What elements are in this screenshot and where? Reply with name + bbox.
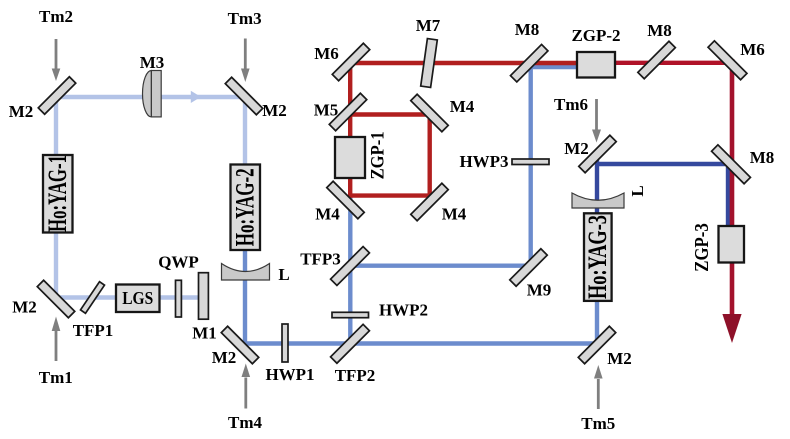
mirror M4 (bottom-right of ring)	[411, 183, 448, 220]
wire medium blue beam V6 (Ho:YAG-3 down to M2/Tm5)	[595, 298, 599, 346]
wire pale pump beam V2 (M2TR down into Ho:YAG-2)	[243, 97, 247, 230]
svg-text:M5: M5	[314, 101, 339, 120]
polarizer TFP2	[331, 324, 370, 363]
mirror M8 (top, right of ZGP-2)	[638, 41, 675, 78]
svg-text:M7: M7	[416, 16, 441, 35]
Tm2 pump arrow	[52, 39, 61, 81]
mirror M5	[329, 93, 366, 130]
mirror M4 (top-right of ring)	[411, 94, 448, 131]
svg-text:M2: M2	[212, 348, 237, 367]
waveplate QWP	[176, 280, 182, 317]
Tm5 pump arrow	[594, 365, 603, 409]
svg-text:M1: M1	[192, 324, 217, 343]
mirror M4 (bottom-left of ring)	[327, 181, 364, 218]
wire crimson beam RH1b (ZGP-2 output to M6 top-right)	[590, 61, 732, 65]
mirror M8 (right side)	[712, 145, 751, 184]
Tm4 pump arrow	[242, 364, 251, 409]
svg-text:HWP3: HWP3	[459, 152, 508, 171]
polarizer TFP1	[81, 282, 105, 314]
svg-text:LGS: LGS	[122, 288, 153, 308]
Tm1 pump arrow	[52, 317, 61, 362]
svg-text:M8: M8	[647, 21, 672, 40]
waveplate HWP2	[332, 312, 369, 317]
output arrowhead below ZGP-3	[722, 314, 741, 343]
svg-text:M2: M2	[9, 102, 34, 121]
svg-text:Ho:YAG-2: Ho:YAG-2	[231, 168, 260, 246]
svg-text:L: L	[628, 185, 647, 196]
Tm3 pump arrow	[241, 39, 250, 83]
wire medium blue beam H5 (M8 right into ZGP-2)	[531, 65, 579, 69]
svg-text:M4: M4	[315, 205, 340, 224]
wire medium blue beam H3 (M2/Tm4 to M2/Tm5)	[243, 341, 599, 345]
wire red beam RH1 (M6TL right through M7, M8, ZGP-2, M8 to M6TR)	[348, 61, 590, 65]
lens M3 (plano-convex)	[143, 71, 152, 117]
mirror M6 (top-left)	[332, 43, 369, 80]
svg-text:Ho:YAG-3: Ho:YAG-3	[583, 215, 612, 299]
svg-text:M8: M8	[750, 148, 775, 167]
crystal box Ho:YAG-3	[584, 213, 612, 301]
svg-text:M9: M9	[527, 281, 552, 300]
wire dark blue beam V7 (M2/Tm6 down through lens L into Ho:YAG-3)	[595, 152, 599, 298]
beam direction arrowhead on H1	[191, 91, 201, 103]
mirror M2 (below Tm6)	[579, 135, 616, 172]
svg-text:M3: M3	[140, 53, 165, 72]
wire red beam RH3 (M4BR left to M4BL)	[348, 193, 432, 197]
svg-text:ZGP-3: ZGP-3	[692, 223, 713, 272]
wire dark blue beam H6 (M8 right to M2/Tm6)	[597, 162, 730, 166]
Tm6 pump arrow	[592, 99, 601, 143]
wire red beam RV1 (M6TL down through M5 and ZGP-1 to M4BL)	[348, 61, 352, 198]
mirror M2 (above Tm5)	[578, 326, 615, 363]
crystal box ZGP-1	[335, 137, 365, 178]
svg-text:ZGP-2: ZGP-2	[571, 26, 620, 45]
svg-text:M2: M2	[262, 101, 287, 120]
polarizer TFP3	[331, 247, 370, 286]
svg-text:TFP1: TFP1	[73, 321, 114, 340]
mirror M2 (above Tm4)	[221, 326, 258, 363]
wire red beam RV2 (M4TR down to M4BR)	[428, 113, 432, 198]
svg-text:M4: M4	[450, 97, 475, 116]
mirror M6 (top-right corner)	[708, 41, 747, 80]
svg-text:M2: M2	[564, 139, 589, 158]
wire medium blue beam H4 (TFP3 right to M9)	[348, 264, 530, 268]
crystal box LGS	[116, 285, 160, 313]
svg-text:TFP3: TFP3	[300, 250, 341, 269]
svg-text:Tm6: Tm6	[554, 95, 588, 114]
wire pale pump beam H2 (M2BL right to M1)	[54, 295, 203, 299]
svg-text:ZGP-1: ZGP-1	[367, 131, 388, 179]
svg-text:M6: M6	[314, 44, 339, 63]
svg-text:M6: M6	[740, 40, 765, 59]
mirror M2 (top-right)	[225, 77, 262, 114]
mirror M2 (top-left)	[38, 77, 75, 114]
mirror M8 (top, left of ZGP-2)	[510, 44, 547, 81]
lens L (below M2/Tm6, concave top)	[572, 193, 624, 208]
wire pale pump beam V1 (M2TL down to M2BL through Ho:YAG-1)	[54, 95, 58, 301]
svg-text:TFP2: TFP2	[335, 366, 376, 385]
svg-text:M8: M8	[515, 20, 540, 39]
svg-text:HWP1: HWP1	[265, 365, 314, 384]
mirror M9	[510, 249, 547, 286]
svg-text:M4: M4	[442, 205, 467, 224]
crystal box Ho:YAG-2	[231, 165, 261, 251]
wire medium blue beam V3 (Ho:YAG-2 down to corner M2/Tm4)	[243, 230, 247, 345]
wire medium blue beam V5 (M9 up through HWP3 to M8)	[529, 60, 533, 268]
lens L (below Ho:YAG-2, concave top)	[222, 264, 270, 281]
wire dark blue beam V8 (M8 down to ZGP-3)	[726, 162, 730, 228]
svg-text:Tm1: Tm1	[39, 368, 73, 387]
crystal box ZGP-3	[719, 226, 745, 263]
svg-text:Ho:YAG-1: Ho:YAG-1	[43, 155, 72, 232]
svg-text:L: L	[278, 265, 289, 284]
svg-text:QWP: QWP	[158, 252, 199, 271]
svg-text:M2: M2	[607, 349, 632, 368]
mirror M1 (flat end mirror)	[199, 273, 209, 320]
svg-text:Tm3: Tm3	[228, 9, 262, 28]
waveplate HWP3	[512, 159, 549, 165]
wire dark red beam RV3 (M6TR down through M8 and ZGP-3)	[730, 59, 735, 316]
mirror M7 (tilted output coupler)	[421, 39, 438, 88]
waveplate HWP1	[282, 324, 288, 362]
svg-text:Tm4: Tm4	[228, 413, 263, 432]
svg-text:M2: M2	[12, 297, 37, 316]
svg-text:Tm2: Tm2	[39, 7, 73, 26]
wire red beam RH2 (M5 right to M4TR)	[348, 112, 432, 116]
svg-text:Tm5: Tm5	[581, 414, 615, 433]
wire pale pump beam H1 (M2TL to M2TR)	[56, 95, 247, 99]
wire medium blue beam V4 (M4BL down through TFP3 to TFP2)	[348, 196, 352, 346]
mirror M2 (bottom-left)	[37, 280, 74, 317]
crystal box ZGP-2	[577, 52, 615, 78]
crystal box Ho:YAG-1	[43, 155, 73, 233]
svg-text:HWP2: HWP2	[379, 301, 428, 320]
